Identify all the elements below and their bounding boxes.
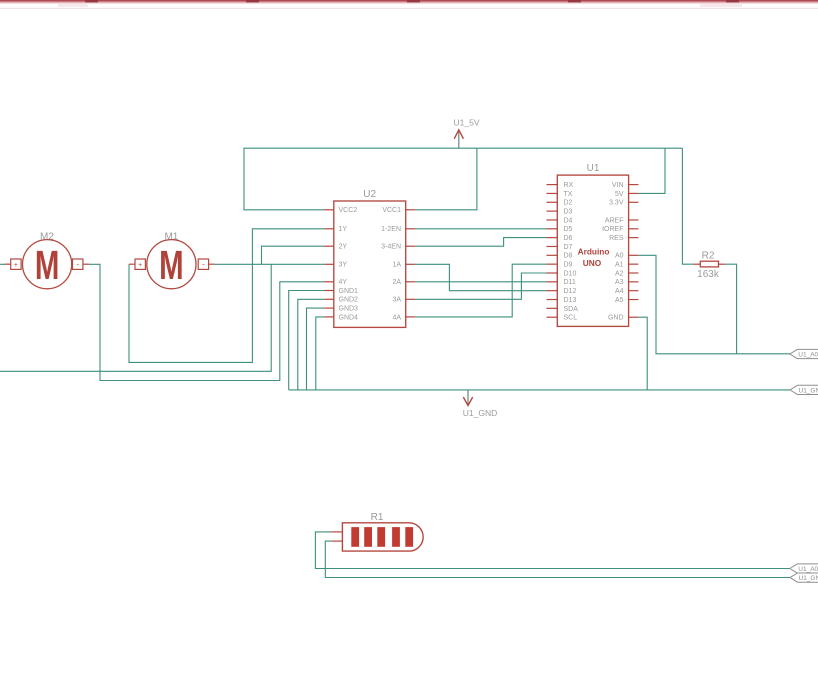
wire net U1_5V: VCC1 riser xyxy=(415,148,477,210)
wire net U1_5V: VCC2 to top rail xyxy=(244,148,682,210)
U1 right pin stubs xyxy=(629,185,639,318)
motor M1 xyxy=(129,232,215,289)
svg-text:1-2EN: 1-2EN xyxy=(381,226,401,233)
svg-text:U1_5V: U1_5V xyxy=(454,118,480,128)
wire net U1_GND: GND3 xyxy=(307,308,325,390)
wire R1 pin2 to tag U1_GND xyxy=(325,541,790,577)
svg-text:SDA: SDA xyxy=(564,306,579,313)
U2 pin labels xyxy=(339,207,402,321)
svg-text:U1_A0: U1_A0 xyxy=(798,351,818,358)
wire net U1_GND: U1 GND pin drop xyxy=(638,317,647,390)
svg-text:A0: A0 xyxy=(615,253,624,260)
svg-text:A2: A2 xyxy=(615,270,624,277)
svg-text:R1: R1 xyxy=(371,512,384,523)
wire left link of 3Y net xyxy=(0,264,271,371)
svg-text:U1: U1 xyxy=(587,163,600,174)
wire net U1_5V: drop to R2 xyxy=(682,148,693,264)
svg-text:A3: A3 xyxy=(615,279,624,286)
ground symbol U1_GND xyxy=(463,390,497,418)
svg-text:D6: D6 xyxy=(564,235,573,242)
svg-text:D7: D7 xyxy=(564,244,573,251)
svg-text:M: M xyxy=(159,242,184,288)
net tag node U1_A0 (lower) xyxy=(790,564,818,573)
wire R1 pin1 to tag U1_A0 xyxy=(315,532,790,569)
net tag node U1_GND (upper) xyxy=(790,385,818,394)
wire M2- to 4Y xyxy=(89,264,324,380)
resistor R1 flex sensor xyxy=(331,512,423,551)
wire 3-4EN to D6 xyxy=(415,238,546,247)
svg-text:U1_GND: U1_GND xyxy=(799,387,818,394)
svg-text:D13: D13 xyxy=(564,297,577,304)
svg-text:Arduino: Arduino xyxy=(578,246,610,256)
wire 1-2EN to D5 xyxy=(415,228,546,230)
svg-text:RX: RX xyxy=(564,182,574,189)
svg-text:VCC2: VCC2 xyxy=(339,207,358,214)
svg-text:U1_GND: U1_GND xyxy=(463,408,497,418)
svg-text:163k: 163k xyxy=(697,269,720,280)
svg-text:4A: 4A xyxy=(392,314,401,321)
wire R2 to A0 net xyxy=(725,264,736,354)
svg-text:A1: A1 xyxy=(615,262,624,269)
svg-text:VCC1: VCC1 xyxy=(382,207,401,214)
svg-text:M: M xyxy=(35,242,60,288)
wire M1- to 3Y xyxy=(215,263,325,265)
net tag node U1_A0 (upper) xyxy=(790,349,818,358)
svg-text:RES: RES xyxy=(609,235,624,242)
wire 2A to D11 xyxy=(415,281,546,283)
svg-text:GND3: GND3 xyxy=(339,306,359,313)
cropped component edge at top xyxy=(0,0,818,9)
op-amp U1 Arduino UNO xyxy=(557,163,628,326)
svg-text:3A: 3A xyxy=(392,297,401,304)
U1 pin labels xyxy=(564,182,624,322)
svg-text:TX: TX xyxy=(564,191,573,198)
svg-text:2A: 2A xyxy=(392,279,401,286)
svg-text:5V: 5V xyxy=(615,191,624,198)
wire net U1_GND: bus xyxy=(289,389,791,391)
wire M2+ lead xyxy=(0,263,5,265)
svg-text:D8: D8 xyxy=(564,253,573,260)
svg-text:-: - xyxy=(76,260,79,269)
IC U2 motor driver xyxy=(334,189,406,327)
svg-text:SCL: SCL xyxy=(564,315,578,322)
svg-text:UNO: UNO xyxy=(583,258,602,268)
svg-text:D2: D2 xyxy=(564,200,573,207)
wire net U1_GND: GND1 xyxy=(289,291,325,390)
svg-text:U1_A0: U1_A0 xyxy=(798,566,818,573)
wire net U1_5V: 5V pin riser xyxy=(638,148,665,193)
svg-text:D12: D12 xyxy=(564,288,577,295)
svg-text:2Y: 2Y xyxy=(339,244,348,251)
svg-text:GND4: GND4 xyxy=(339,314,359,321)
svg-text:3-4EN: 3-4EN xyxy=(381,244,401,251)
net tag node U1_GND (lower) xyxy=(790,573,818,582)
wire 4A to D9 xyxy=(415,264,546,317)
svg-text:D5: D5 xyxy=(564,226,573,233)
svg-text:VIN: VIN xyxy=(612,182,624,189)
U1 left pin stubs xyxy=(547,185,558,318)
svg-text:1Y: 1Y xyxy=(339,226,348,233)
wire net U1_GND: GND2 xyxy=(298,299,324,390)
svg-text:-: - xyxy=(202,260,205,269)
svg-text:IOREF: IOREF xyxy=(602,226,623,233)
svg-text:D3: D3 xyxy=(564,209,573,216)
wire 3A to D10 xyxy=(415,273,546,299)
svg-text:GND1: GND1 xyxy=(339,288,359,295)
wire net U1_GND: GND4 xyxy=(316,317,324,390)
U2 right pin stubs xyxy=(406,210,416,317)
svg-text:D11: D11 xyxy=(564,279,576,286)
svg-text:3Y: 3Y xyxy=(339,262,348,269)
svg-text:GND: GND xyxy=(608,315,624,322)
svg-text:D10: D10 xyxy=(564,270,577,277)
U2 left pin stubs xyxy=(324,210,334,317)
svg-text:A4: A4 xyxy=(615,288,624,295)
motor M2 xyxy=(5,232,89,289)
svg-text:4Y: 4Y xyxy=(339,279,348,286)
svg-text:1A: 1A xyxy=(392,262,401,269)
svg-text:D4: D4 xyxy=(564,217,573,224)
svg-text:AREF: AREF xyxy=(605,217,624,224)
wire 2Y tap xyxy=(262,246,325,264)
svg-text:D9: D9 xyxy=(564,262,573,269)
svg-text:U2: U2 xyxy=(363,189,376,200)
wire 1A to D12 xyxy=(415,264,546,290)
svg-text:GND2: GND2 xyxy=(339,297,359,304)
svg-text:3.3V: 3.3V xyxy=(609,200,624,207)
svg-text:R2: R2 xyxy=(702,251,715,262)
svg-text:+: + xyxy=(138,262,142,269)
resistor R2 163k xyxy=(694,251,726,280)
wire net U1_A0: A0 pin to tag xyxy=(638,255,790,353)
wire M1+ to 1Y xyxy=(129,229,324,363)
svg-text:+: + xyxy=(14,262,18,269)
svg-text:U1_GND: U1_GND xyxy=(799,575,818,582)
svg-text:A5: A5 xyxy=(615,297,624,304)
power symbol U1_5V xyxy=(454,118,480,149)
